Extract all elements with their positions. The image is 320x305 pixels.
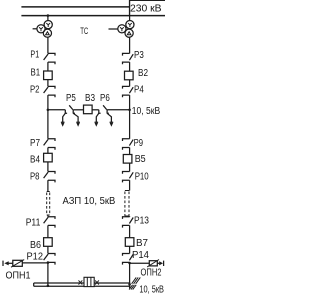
surge arrester OPN1 xyxy=(3,260,31,282)
wire B1 to P2 xyxy=(47,80,49,87)
svg-text:Р2: Р2 xyxy=(30,85,40,96)
cable joint box xyxy=(84,277,94,286)
node bus-tie tap right xyxy=(128,109,131,112)
wire P8 to cable left xyxy=(47,180,49,191)
wire B2 to P4 xyxy=(129,80,131,87)
svg-text:ОПН2: ОПН2 xyxy=(141,268,162,279)
wire cable to P13 xyxy=(129,215,131,218)
bus-tie wire right segment xyxy=(107,109,130,111)
wire B7 to P14 xyxy=(129,246,131,253)
bus-tie wire segment B3 to P6 xyxy=(92,109,99,111)
breaker B5 xyxy=(123,154,146,165)
wire cable to P11 xyxy=(47,215,49,217)
svg-text:В6: В6 xyxy=(30,240,41,251)
disconnector P10 xyxy=(123,172,150,183)
node junction bus2/T1 xyxy=(47,14,50,17)
svg-text:Р1: Р1 xyxy=(30,50,39,61)
wire T1 to P1 xyxy=(47,37,49,53)
node OPN1 tap xyxy=(47,261,50,264)
disconnector P2 xyxy=(30,85,55,98)
wire bus2 to transformer T1 xyxy=(47,15,49,20)
wire B5 to P10 xyxy=(129,163,131,171)
cable joint mark right (x) xyxy=(95,280,99,284)
svg-text:ТС: ТС xyxy=(80,26,88,37)
svg-text:Р14: Р14 xyxy=(132,250,149,261)
wire P11 to B6 xyxy=(47,225,49,237)
breaker B3 xyxy=(84,93,96,114)
svg-text:АЗП 10, 5кВ: АЗП 10, 5кВ xyxy=(63,196,116,207)
svg-text:В5: В5 xyxy=(135,154,146,165)
node return line right tap xyxy=(128,283,131,286)
wire P10 to cable right xyxy=(129,180,131,190)
ground hatching at line end xyxy=(132,277,141,283)
svg-text:Р9: Р9 xyxy=(134,138,144,149)
cable section left (dashed) xyxy=(47,192,50,216)
disconnector P8 xyxy=(30,172,55,183)
wire P12 to return line xyxy=(47,262,49,286)
node OPN2 tap xyxy=(128,262,131,265)
surge arrester OPN2 branch wire xyxy=(130,262,150,264)
wire P14 to ground xyxy=(129,262,131,288)
breaker B2 xyxy=(125,68,149,80)
svg-text:В2: В2 xyxy=(138,68,148,79)
transformer T2 (right, three-winding Y/Y/D) xyxy=(109,1,135,38)
cable section right (dashed) xyxy=(125,191,129,217)
wire P13 to B7 xyxy=(129,225,131,237)
disconnector P11 xyxy=(26,217,55,229)
svg-text:Р10: Р10 xyxy=(135,172,149,183)
wire P4 to P9 (through bus-tie tap) xyxy=(129,95,131,139)
svg-text:В1: В1 xyxy=(31,68,41,79)
node return line left tap xyxy=(47,285,50,288)
disconnector P14 xyxy=(123,250,150,265)
svg-text:230 кВ: 230 кВ xyxy=(130,4,162,15)
cable joint mark left (x) xyxy=(79,280,83,284)
wire T2 to P3 xyxy=(129,37,131,53)
svg-text:Р8: Р8 xyxy=(30,172,40,183)
breaker B7 xyxy=(125,238,148,249)
svg-text:Р4: Р4 xyxy=(134,85,144,96)
wire P9 to B5 xyxy=(129,148,131,155)
svg-text:Р7: Р7 xyxy=(30,138,40,149)
node bus-tie tap left xyxy=(47,109,50,112)
svg-text:В3: В3 xyxy=(85,93,95,104)
breaker B4 xyxy=(30,153,52,165)
breaker B6 xyxy=(30,238,52,251)
bus-tie wire middle segment xyxy=(73,109,83,111)
disconnector P7 xyxy=(30,138,55,150)
svg-text:ОПН1: ОПН1 xyxy=(6,270,31,281)
svg-text:Р5: Р5 xyxy=(66,93,76,104)
transformer TC (left, three-winding Y/Y/D) xyxy=(33,21,53,38)
wire P3 to B2 xyxy=(129,62,131,71)
ground hatching below right column xyxy=(129,285,136,290)
svg-text:10, 5кВ: 10, 5кВ xyxy=(139,285,164,296)
label box 230 kV xyxy=(129,1,165,16)
disconnector P9 xyxy=(123,138,144,150)
disconnector P1 xyxy=(30,50,55,65)
surge arrester OPN1 branch wire xyxy=(22,262,48,264)
disconnector P12 xyxy=(27,252,56,265)
wire P1 to B1 xyxy=(47,62,49,71)
disconnector P5 with earthing knives xyxy=(61,93,80,127)
svg-text:Р12: Р12 xyxy=(27,252,44,263)
disconnector P4 xyxy=(123,85,145,98)
svg-text:Р3: Р3 xyxy=(134,50,144,61)
disconnector P13 xyxy=(123,215,150,227)
disconnector P3 xyxy=(123,50,145,64)
wire P2 to P7 (through bus-tie tap) xyxy=(47,95,49,139)
svg-text:В4: В4 xyxy=(30,155,40,166)
svg-text:Р6: Р6 xyxy=(100,93,110,104)
svg-text:Р11: Р11 xyxy=(26,217,41,228)
wire P7 to B4 xyxy=(47,148,49,154)
wire B6 to P12 xyxy=(47,246,49,253)
svg-text:Р13: Р13 xyxy=(134,215,149,226)
bus 2 (lower 230kV bus) xyxy=(21,15,165,17)
breaker B1 xyxy=(31,68,53,80)
surge arrester OPN2 xyxy=(141,260,164,279)
svg-text:В7: В7 xyxy=(136,238,148,249)
bus-tie wire left segment xyxy=(48,109,65,111)
bus 1 (upper 230kV bus) xyxy=(21,6,129,8)
return feeder double line xyxy=(34,283,131,286)
wire B4 to P8 xyxy=(47,162,49,172)
svg-text:10, 5кВ: 10, 5кВ xyxy=(132,106,161,117)
disconnector P6 with earthing knives xyxy=(95,93,114,127)
